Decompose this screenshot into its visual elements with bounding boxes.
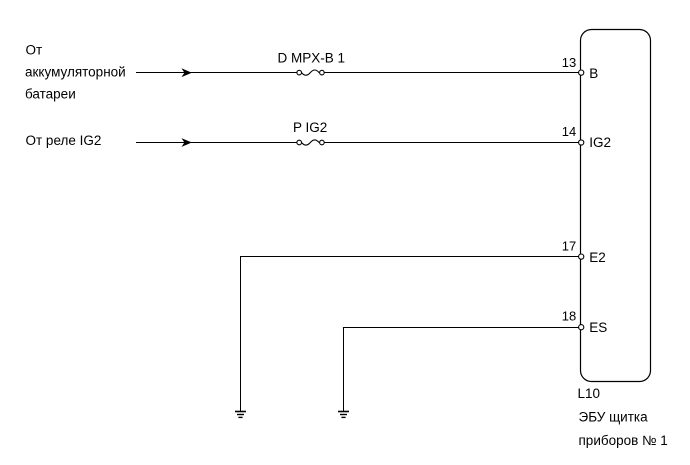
svg-text:14: 14 bbox=[562, 124, 576, 139]
fuse D MPX-B 1 bbox=[297, 70, 324, 75]
svg-text:E2: E2 bbox=[589, 250, 606, 265]
wire from pin 18 ES to ground (horizontal) bbox=[343, 327, 579, 329]
connector box L10 (instrument cluster ECU) bbox=[581, 30, 651, 382]
svg-text:B: B bbox=[589, 66, 598, 81]
wire from pin 17 E2 to ground (horizontal) bbox=[240, 256, 579, 258]
svg-text:ЭБУ щитка: ЭБУ щитка bbox=[579, 410, 649, 425]
wire from fuse D MPX-B 1 to pin 13 bbox=[324, 72, 579, 74]
svg-text:ES: ES bbox=[589, 320, 607, 335]
ground for E2 bbox=[235, 412, 246, 418]
pin 18 circle bbox=[579, 325, 584, 330]
svg-text:IG2: IG2 bbox=[589, 135, 611, 150]
wire from pin 17 E2 to ground (vertical) bbox=[240, 256, 242, 411]
svg-text:L10: L10 bbox=[578, 386, 601, 401]
arrow on battery wire bbox=[182, 68, 192, 77]
svg-text:приборов № 1: приборов № 1 bbox=[579, 433, 668, 448]
wire from battery to fuse D MPX-B 1 bbox=[136, 72, 297, 74]
pin 17 circle bbox=[579, 254, 584, 259]
svg-text:От: От bbox=[26, 43, 43, 58]
label "От аккумуляторной батареи" bbox=[25, 43, 126, 102]
svg-text:аккумуляторной: аккумуляторной bbox=[25, 65, 126, 80]
svg-text:18: 18 bbox=[562, 309, 576, 324]
svg-text:От реле IG2: От реле IG2 bbox=[26, 133, 102, 148]
wire from relay IG2 to fuse P IG2 bbox=[136, 142, 297, 144]
wire from pin 18 ES to ground (vertical) bbox=[343, 327, 345, 411]
pin 13 circle bbox=[579, 70, 584, 75]
svg-text:13: 13 bbox=[562, 55, 576, 70]
svg-text:батареи: батареи bbox=[25, 87, 76, 102]
svg-text:17: 17 bbox=[562, 239, 576, 254]
ground for ES bbox=[338, 412, 349, 418]
fuse P IG2 bbox=[297, 140, 324, 145]
svg-text:D MPX-B 1: D MPX-B 1 bbox=[278, 50, 346, 65]
arrow on relay IG2 wire bbox=[182, 138, 192, 147]
wire from fuse P IG2 to pin 14 bbox=[324, 142, 579, 144]
svg-text:P IG2: P IG2 bbox=[293, 120, 327, 135]
pin 14 circle bbox=[579, 140, 584, 145]
